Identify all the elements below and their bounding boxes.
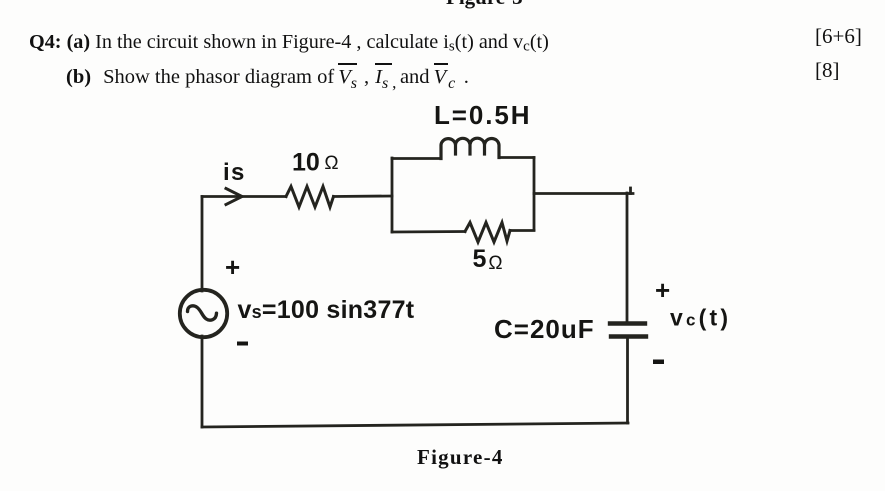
wire: right vertical lower segment (capacitor to bottom) xyxy=(626,338,629,423)
question line 1 xyxy=(29,31,549,56)
label 5 ohm xyxy=(473,245,503,274)
wire: top right horizontal from parallel box to right corner (with overshoot tick) xyxy=(534,188,633,194)
svg-text:C=20uF: C=20uF xyxy=(494,314,595,344)
marks [6+6] xyxy=(815,24,862,49)
parallel box bottom edge right segment xyxy=(510,229,534,232)
svg-text:5Ω: 5Ω xyxy=(473,245,503,274)
plus sign at capacitor xyxy=(655,275,670,305)
capacitor C1 top plate xyxy=(610,321,645,325)
parallel box left edge xyxy=(391,158,394,232)
parallel box bottom edge left segment xyxy=(392,230,465,233)
label is xyxy=(223,159,246,186)
svg-text:+: + xyxy=(225,252,240,282)
question line 2 xyxy=(66,66,469,93)
svg-text:L=0.5H: L=0.5H xyxy=(434,100,531,130)
arrow for current is xyxy=(226,189,242,205)
label C=20uF xyxy=(494,314,595,344)
plus sign at source xyxy=(225,252,240,282)
minus sign at capacitor xyxy=(653,360,664,365)
label vs=100 sin377t xyxy=(238,296,415,324)
svg-text:is: is xyxy=(223,159,246,186)
svg-text:vc(t): vc(t) xyxy=(670,305,731,331)
parallel box right edge xyxy=(533,158,536,231)
wire: right vertical upper segment (top wire to capacitor) xyxy=(626,193,629,322)
parallel box top edge right segment xyxy=(499,156,534,159)
inductor L1 coil xyxy=(441,138,499,158)
wire: top left horizontal from source corner to 10-ohm resistor xyxy=(202,195,286,198)
svg-text:10Ω: 10Ω xyxy=(292,149,339,177)
wire: left vertical lower segment xyxy=(201,336,204,427)
source V1 circle xyxy=(180,290,227,337)
label vc(t) xyxy=(670,305,731,331)
capacitor C1 bottom plate xyxy=(611,334,646,338)
marks [8] xyxy=(815,58,840,83)
cut-off caption "Figure-3" at very top xyxy=(446,0,523,10)
label 10 ohm xyxy=(292,149,339,177)
resistor R1 10-ohm zigzag xyxy=(286,187,334,208)
wire: left vertical upper segment xyxy=(201,197,204,292)
source V1 sine symbol xyxy=(187,306,216,320)
svg-text:+: + xyxy=(655,275,670,305)
label L=0.5H xyxy=(434,100,531,130)
figure caption xyxy=(417,445,504,470)
minus sign at source xyxy=(237,342,248,346)
svg-text:vs=100 sin377t: vs=100 sin377t xyxy=(238,296,415,324)
resistor R2 5-ohm zigzag xyxy=(465,223,510,243)
parallel box top edge left segment xyxy=(392,157,441,160)
wire: from R1 to parallel box left xyxy=(334,195,393,198)
wire: bottom horizontal xyxy=(202,423,628,427)
